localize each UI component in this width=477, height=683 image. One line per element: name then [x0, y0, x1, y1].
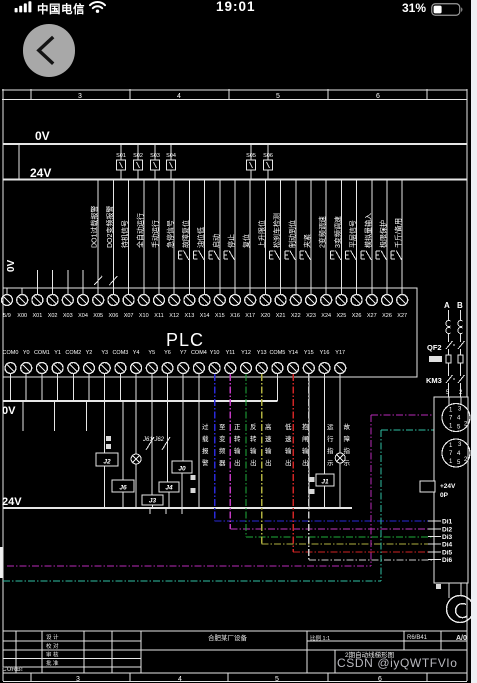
- contact switch on X23: [300, 251, 311, 261]
- terminal mark: [106, 444, 111, 449]
- svg-text:比例 1:1: 比例 1:1: [310, 634, 330, 642]
- svg-text:S02: S02: [133, 153, 143, 159]
- svg-text:复位: 复位: [242, 234, 251, 248]
- svg-text:J6: J6: [119, 485, 127, 492]
- wire input X15: [219, 180, 221, 296]
- wire output COM5: [276, 377, 278, 401]
- wire input X05: [97, 180, 99, 296]
- svg-text:A/0: A/0: [456, 635, 467, 642]
- wire into plug A: [448, 397, 450, 405]
- terminal X23: [306, 288, 317, 306]
- svg-text:S03: S03: [150, 153, 160, 159]
- terminal Y16: [319, 363, 330, 378]
- contact switch on X25: [330, 251, 341, 261]
- svg-text:过: 过: [202, 422, 209, 431]
- svg-text:正: 正: [234, 423, 241, 431]
- fuse S06: [264, 144, 273, 180]
- svg-text:示: 示: [344, 459, 351, 467]
- svg-text:6: 6: [376, 93, 380, 100]
- terminal Y5: [146, 363, 157, 378]
- svg-text:警: 警: [202, 458, 209, 467]
- terminal mark: [191, 475, 196, 480]
- terminal Y14: [288, 363, 299, 378]
- svg-text:Y10: Y10: [210, 350, 220, 356]
- svg-text:运: 运: [327, 423, 334, 431]
- terminal COM2: [68, 363, 79, 378]
- svg-text:报: 报: [202, 446, 209, 455]
- output wire labels: [202, 422, 351, 467]
- terminal X03: [62, 288, 73, 306]
- terminal Y11: [225, 363, 236, 378]
- terminal Y1: [52, 363, 63, 378]
- wire input X06: [112, 180, 114, 296]
- wire relay to 24V: [122, 492, 124, 508]
- svg-text:X01: X01: [33, 313, 43, 319]
- wire input X27: [371, 180, 373, 296]
- svg-text:Y3: Y3: [101, 350, 108, 356]
- terminal X25: [336, 288, 347, 306]
- terminal Y3: [99, 363, 110, 378]
- svg-text:Y7: Y7: [180, 350, 187, 356]
- svg-text:X23: X23: [306, 313, 316, 319]
- svg-text:设 计: 设 计: [46, 633, 59, 641]
- svg-text:X26: X26: [352, 313, 362, 319]
- terminal X00: [17, 288, 28, 306]
- relay J0: [172, 461, 192, 473]
- svg-text:出: 出: [234, 458, 241, 467]
- svg-text:出: 出: [250, 458, 257, 467]
- row1 terminal labels: [3, 313, 407, 319]
- pin Di2: [428, 528, 441, 530]
- fuse body A: [446, 355, 451, 363]
- wire relay to 24V: [152, 505, 154, 508]
- contact switch on X26: [376, 251, 387, 261]
- wire input X04: [82, 270, 84, 295]
- wire output COM1: [41, 377, 43, 401]
- contact switch on X27: [391, 251, 402, 261]
- svg-text:S04: S04: [166, 153, 176, 159]
- relay J3: [142, 495, 163, 505]
- svg-text:Y5: Y5: [148, 350, 155, 356]
- pin Di1: [428, 520, 441, 522]
- terminal X14: [199, 288, 210, 306]
- wire blue Di1: [215, 374, 434, 521]
- svg-text:3: 3: [78, 93, 82, 100]
- terminal mark: [310, 477, 315, 482]
- wire output Y1: [57, 377, 59, 401]
- lamp H2: [335, 453, 345, 463]
- wire motor B: [460, 583, 462, 596]
- svg-text:6: 6: [378, 676, 382, 683]
- terminal X26: [382, 288, 393, 306]
- svg-text:X25: X25: [337, 313, 347, 319]
- terminal X24: [321, 288, 332, 306]
- terminal X04: [78, 288, 89, 306]
- contact switch on X22: [285, 251, 296, 261]
- wire input X07: [128, 180, 130, 296]
- wire phase: [448, 310, 450, 397]
- svg-text:Y11: Y11: [226, 350, 235, 356]
- svg-text:制动到位: 制动到位: [287, 220, 296, 248]
- svg-text:速: 速: [265, 435, 272, 443]
- contact switch on X16: [224, 251, 235, 261]
- wire Y16 drop: [308, 377, 310, 508]
- svg-text:高: 高: [265, 422, 272, 431]
- svg-text:行: 行: [327, 434, 334, 443]
- svg-text:A: A: [444, 301, 450, 310]
- fuse S02: [134, 144, 143, 180]
- svg-text:S05: S05: [246, 153, 256, 159]
- svg-text:Y0: Y0: [23, 350, 30, 356]
- svg-text:5/9: 5/9: [3, 313, 11, 319]
- terminal X15: [214, 288, 225, 306]
- back button: [23, 24, 76, 77]
- wire phase: [460, 310, 462, 397]
- svg-text:审 核: 审 核: [46, 651, 59, 659]
- wire input X16: [234, 180, 236, 296]
- terminal COM4: [193, 363, 204, 378]
- wire output Y16: [324, 377, 326, 401]
- terminal X05: [93, 288, 104, 306]
- terminal Y0: [21, 363, 32, 378]
- contact switch on X21: [270, 251, 281, 261]
- svg-text:5: 5: [276, 93, 280, 100]
- svg-text:QF2: QF2: [427, 343, 442, 352]
- svg-text:手动运行: 手动运行: [151, 220, 160, 248]
- svg-text:Di3: Di3: [442, 534, 453, 541]
- svg-text:校 对: 校 对: [46, 642, 59, 650]
- right border: [466, 90, 468, 673]
- svg-text:5: 5: [446, 390, 450, 396]
- wire input X01: [36, 270, 38, 295]
- svg-text:Y13: Y13: [257, 350, 267, 356]
- svg-text:0V: 0V: [6, 259, 17, 272]
- status bar: [0, 0, 471, 24]
- connector box XS1: [434, 397, 468, 583]
- svg-text:指: 指: [344, 446, 351, 455]
- svg-text:0V: 0V: [2, 405, 16, 417]
- svg-text:输: 输: [250, 446, 257, 455]
- svg-text:至: 至: [219, 423, 226, 431]
- motor M1: [447, 596, 474, 623]
- wire input X21: [280, 180, 282, 296]
- terminal Y17: [335, 363, 346, 378]
- svg-text:24V: 24V: [2, 496, 22, 508]
- wire stub: [22, 401, 24, 431]
- terminal X07: [123, 288, 134, 306]
- svg-text:夹紧: 夹紧: [303, 234, 312, 248]
- svg-text:Y15: Y15: [304, 350, 314, 356]
- svg-text:启动: 启动: [211, 234, 220, 248]
- svg-text:Y17: Y17: [335, 350, 345, 356]
- wire to J6: [122, 401, 124, 480]
- svg-text:批 准: 批 准: [46, 659, 59, 667]
- wire magenta Di2: [230, 374, 434, 529]
- svg-text:Di4: Di4: [442, 542, 453, 549]
- svg-text:X02: X02: [48, 313, 58, 319]
- relay J2: [96, 453, 118, 466]
- terminal X26: [351, 288, 362, 306]
- wire output Y15: [308, 377, 310, 401]
- svg-text:R6/B41: R6/B41: [407, 635, 428, 641]
- wire output COM4: [198, 377, 200, 401]
- node 24V upper bus: [3, 179, 467, 181]
- svg-text:J0: J0: [178, 466, 186, 473]
- terminal Y10: [209, 363, 220, 378]
- svg-text:出: 出: [265, 458, 272, 467]
- svg-text:反: 反: [250, 422, 257, 431]
- terminal COM5: [272, 363, 283, 378]
- svg-text:Y4: Y4: [133, 350, 140, 356]
- svg-text:DO2变频报警: DO2变频报警: [105, 206, 114, 248]
- terminal X22: [290, 288, 301, 306]
- svg-text:低: 低: [285, 422, 292, 431]
- plug contact: [446, 321, 451, 334]
- contact switch on X27: [361, 251, 372, 261]
- terminal COM1: [36, 363, 47, 378]
- svg-text:2: 2: [459, 390, 463, 396]
- wire output Y2: [88, 377, 90, 401]
- terminal X12: [169, 288, 180, 306]
- terminal Y2: [84, 363, 95, 378]
- contact switch on X14: [194, 251, 205, 261]
- svg-text:Y6: Y6: [164, 350, 171, 356]
- svg-text:4: 4: [177, 93, 181, 100]
- svg-text:输: 输: [265, 446, 272, 455]
- svg-text:Y14: Y14: [288, 350, 298, 356]
- terminal X11: [154, 288, 165, 306]
- svg-text:变: 变: [219, 434, 226, 443]
- terminal COM0: [5, 363, 16, 378]
- wire input X24: [325, 180, 327, 296]
- svg-text:急停信号: 急停信号: [166, 220, 175, 248]
- terminal X02: [47, 288, 58, 306]
- svg-text:故障复位: 故障复位: [181, 220, 190, 248]
- wire input X17: [249, 180, 251, 296]
- svg-text:X22: X22: [291, 313, 301, 319]
- svg-text:器: 器: [219, 459, 226, 467]
- svg-text:J2: J2: [103, 459, 111, 466]
- wire to J1: [324, 377, 326, 474]
- thermal block: [429, 356, 442, 362]
- fuse S03: [151, 144, 160, 180]
- wire output Y4: [135, 377, 137, 401]
- terminal mark: [106, 436, 111, 441]
- svg-text:输: 输: [285, 446, 292, 455]
- wire gray Di6: [309, 374, 434, 560]
- wire output Y7: [182, 377, 184, 401]
- svg-text:X24: X24: [321, 313, 331, 319]
- svg-text:X04: X04: [78, 313, 88, 319]
- wire relay to 24V: [181, 473, 183, 508]
- terminal mark: [191, 488, 196, 493]
- lamp H1: [131, 454, 141, 464]
- svg-text:X27: X27: [397, 313, 407, 319]
- terminal COM3: [115, 363, 126, 378]
- fuse S04: [167, 144, 176, 180]
- row2 terminal labels: [3, 350, 346, 356]
- svg-text:0P: 0P: [440, 492, 449, 499]
- svg-text:J4: J4: [165, 485, 173, 492]
- wire input X22: [295, 180, 297, 296]
- title block texts: [46, 633, 467, 667]
- wire motor A: [448, 583, 450, 598]
- wire Y15 drop: [276, 377, 278, 401]
- wire left drop: [18, 144, 20, 180]
- contact switch on X26: [346, 251, 357, 261]
- wire stub below 24V: [149, 508, 151, 514]
- terminal Y4: [131, 363, 142, 378]
- svg-text:5: 5: [275, 676, 279, 683]
- terminal X27: [397, 288, 408, 306]
- svg-text:上升限位: 上升限位: [257, 220, 266, 248]
- switch J61: [146, 437, 154, 450]
- pin Di6: [428, 559, 441, 561]
- svg-text:X17: X17: [245, 313, 255, 319]
- svg-text:模拟量输入: 模拟量输入: [363, 213, 372, 248]
- wire output Y17: [339, 377, 341, 401]
- svg-text:COM0: COM0: [3, 350, 19, 356]
- pin Di3: [428, 536, 441, 538]
- svg-text:S06: S06: [263, 153, 273, 159]
- svg-text:COM4: COM4: [191, 350, 207, 356]
- pin Di4: [428, 543, 441, 545]
- wire green Di3: [246, 374, 434, 537]
- svg-text:X21: X21: [276, 313, 286, 319]
- svg-text:故: 故: [344, 422, 351, 431]
- svg-text:抱: 抱: [302, 422, 309, 431]
- wire input X23: [310, 180, 312, 296]
- wire to J2: [104, 401, 106, 453]
- svg-text:3: 3: [76, 676, 80, 683]
- wire input X11: [158, 180, 160, 296]
- wire input X20: [264, 180, 266, 296]
- svg-text:COM2: COM2: [65, 350, 81, 356]
- svg-text:合肥某厂设备: 合肥某厂设备: [208, 633, 248, 642]
- wire output COM2: [72, 377, 74, 401]
- relay J6: [112, 480, 134, 492]
- battery icon: [431, 3, 464, 16]
- terminal X27: [366, 288, 377, 306]
- wire input X03: [67, 270, 69, 295]
- input wire labels: [90, 206, 403, 248]
- node 0V lower bus: [3, 400, 277, 402]
- PLC U1 box: [3, 288, 417, 377]
- svg-text:4: 4: [178, 676, 182, 683]
- svg-text:X00: X00: [17, 313, 27, 319]
- wire teal feedback: [3, 430, 447, 581]
- svg-text:S01: S01: [116, 153, 126, 159]
- svg-text:停止: 停止: [227, 234, 236, 248]
- svg-text:KM3: KM3: [426, 376, 442, 385]
- border ruler top: [2, 89, 467, 100]
- svg-text:Di1: Di1: [442, 519, 453, 526]
- svg-text:J1: J1: [321, 479, 329, 486]
- fuse body B: [458, 355, 463, 363]
- svg-text:出: 出: [302, 458, 309, 467]
- wire input X26: [356, 180, 358, 296]
- wire output Y0: [25, 377, 27, 401]
- svg-text:B: B: [457, 301, 463, 310]
- pin Di5: [428, 551, 441, 553]
- terminal Y15: [303, 363, 314, 378]
- svg-text:Y2: Y2: [86, 350, 93, 356]
- svg-text:转: 转: [234, 434, 241, 443]
- terminal mark motor: [436, 584, 441, 589]
- wire olive Di4: [262, 374, 434, 544]
- wire input X12: [173, 180, 175, 296]
- svg-text:Di5: Di5: [442, 550, 453, 557]
- svg-text:X10: X10: [139, 313, 149, 319]
- wire J61: [151, 401, 153, 495]
- wire input X02: [52, 270, 54, 295]
- svg-text:频: 频: [219, 446, 226, 455]
- terminal X13: [184, 288, 195, 306]
- svg-text:COM3: COM3: [112, 350, 128, 356]
- switch J62: [162, 437, 170, 450]
- wire relay to 24V: [168, 492, 170, 508]
- svg-text:待机信号: 待机信号: [120, 220, 129, 248]
- svg-text:闸: 闸: [302, 435, 309, 443]
- svg-text:速: 速: [285, 435, 292, 443]
- wire J62: [167, 401, 169, 482]
- svg-text:松刹车检测: 松刹车检测: [272, 213, 281, 248]
- svg-text:X20: X20: [261, 313, 271, 319]
- svg-text:输: 输: [302, 446, 309, 455]
- svg-text:油位低: 油位低: [196, 227, 205, 248]
- terminal 5/9: [2, 288, 13, 306]
- svg-text:J61 J62: J61 J62: [142, 437, 165, 443]
- wire output Y5: [151, 377, 153, 401]
- terminal X16: [230, 288, 241, 306]
- wire input X26: [386, 180, 388, 296]
- svg-text:千斤/备用: 千斤/备用: [394, 218, 403, 248]
- relay J4: [159, 482, 179, 492]
- wire output Y3: [104, 377, 106, 401]
- wire input X27: [401, 180, 403, 296]
- ruler numbers: [78, 93, 380, 100]
- terminal Y7: [178, 363, 189, 378]
- svg-text:全自动运行: 全自动运行: [135, 213, 144, 248]
- svg-text:2变频调速: 2变频调速: [318, 216, 327, 248]
- left margin mark: [0, 547, 3, 578]
- svg-text:转: 转: [250, 434, 257, 443]
- relay J1: [316, 474, 334, 486]
- wire input X25: [340, 180, 342, 296]
- contact switch on X13: [178, 251, 189, 261]
- node 0V upper bus: [3, 143, 467, 145]
- svg-text:平层信号: 平层信号: [348, 220, 357, 248]
- svg-text:COM5: COM5: [269, 350, 285, 356]
- svg-text:示: 示: [327, 459, 334, 467]
- wire output COM3: [119, 377, 121, 401]
- wire red Di5: [293, 374, 434, 552]
- terminal X21: [275, 288, 286, 306]
- wire to lamp H2: [339, 377, 341, 508]
- wire to lamp H1: [135, 401, 137, 508]
- contact switch on X15: [209, 251, 220, 261]
- wire into plug B: [460, 397, 462, 405]
- svg-text:输: 输: [234, 446, 241, 455]
- svg-text:Y16: Y16: [320, 350, 330, 356]
- svg-text:+24V: +24V: [440, 483, 456, 490]
- terminal mark: [310, 489, 315, 494]
- wire to J0: [182, 401, 184, 461]
- terminal +24V: [420, 481, 435, 492]
- break mark DO2: [109, 276, 117, 285]
- svg-text:X11: X11: [154, 313, 163, 319]
- wire input X14: [204, 180, 206, 296]
